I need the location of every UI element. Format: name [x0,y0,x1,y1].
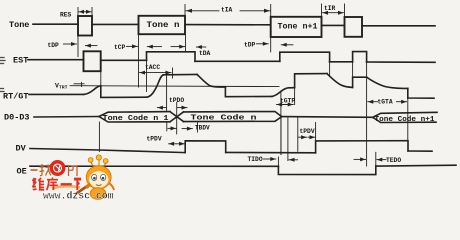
dimension tIA [185,5,271,17]
dimension tIR [322,4,345,17]
wire EST low mid [195,60,280,62]
watermark outline glyph zhao (找) [31,164,78,176]
RT/GT drop 2 [225,87,272,97]
svg-text:tPDO: tPDO [169,97,184,104]
node D0-D3 label [4,113,30,123]
RT/GT step up 2 [353,77,367,87]
node EST label [13,56,28,66]
reference line EST pulse2 right edge down to RT/GT decay [329,62,331,77]
reference line EST pulse3 left edge down to RT/GT step [352,62,354,77]
wire RT/GT baseline [29,93,84,95]
dimension tDA [196,46,205,48]
EST pulse 3 [353,52,367,62]
svg-text:Tone Code n+1: Tone Code n+1 [375,116,435,124]
wire Tone baseline left [33,23,78,25]
VTRT threshold label [55,83,68,91]
tone burst box Tone n+1 [271,17,322,37]
EST strobe box [84,51,101,71]
dimension tDP second [257,37,294,52]
EST pulse 2 [280,52,330,62]
svg-text:EST: EST [13,56,28,66]
svg-text:tDP: tDP [244,41,256,48]
wire OE high left [30,165,278,167]
dimension tPDV left [169,143,185,145]
bus crossover X [170,112,184,122]
svg-text:Tone Code n 1: Tone Code n 1 [103,115,169,123]
dimension TIDO [264,118,298,167]
reference line from bus opening down to DV [98,122,100,152]
wire Tone between Tone n and Tone n+1 [185,24,271,26]
EST pulse 1 [147,52,196,62]
node RT/GT label [3,91,29,101]
dimension tPDV right [298,117,316,151]
svg-text:tPDV: tPDV [147,135,162,142]
VTRT threshold line [70,82,279,86]
RT/GT step up 1 [295,74,327,88]
svg-text:tGTA: tGTA [378,99,393,106]
svg-text:tDP: tDP [48,42,60,49]
dimension TEDO [354,152,386,166]
dimension RES [78,8,92,17]
wire Tone right end [362,25,435,27]
DV pulse 1 [185,141,226,153]
wire EST right end [367,61,435,63]
svg-text:Tone n: Tone n [147,21,180,30]
wire Tone between B1 and Tone n [92,23,139,25]
svg-text:RT/GT: RT/GT [3,91,29,101]
wire DV low mid [226,151,316,153]
tone burst box B1 (RES pulse) [78,16,92,36]
RT/GT decay 1 [197,74,225,87]
dimension tGTA [367,62,408,166]
wire EST mid [101,59,147,61]
watermark red circle logo [50,160,66,176]
RT/GT decay 2 [327,74,353,88]
RT/GT charge curve 3 [272,88,295,97]
wire DV low left [30,149,185,153]
dimension tDP first [64,36,98,57]
svg-text:D0-D3: D0-D3 [4,113,30,123]
RT/GT final drop [408,88,434,98]
bus hexagon Tone Code n-1 [99,112,170,117]
svg-text:Tone Code n: Tone Code n [191,115,258,123]
OE low pulse [278,166,375,175]
svg-text:TBDV: TBDV [195,125,210,132]
tone burst box Tone n [139,16,186,34]
wire EST baseline left [28,59,84,61]
dimension TBDV [167,117,198,134]
RT/GT plateau 1 [164,73,198,75]
dimension arrows on EST pulse1 [147,34,185,52]
RT/GT charge curve 2 [147,75,164,97]
dimension tCP [127,34,139,87]
node Tone label [9,20,29,30]
scan artifact left edge [0,58,5,92]
svg-text:www.dzsc.com: www.dzsc.com [43,191,114,201]
svg-text:tGTP: tGTP [280,98,295,105]
tone burst box B4 [345,17,363,37]
wire D0-D3 mid [282,116,373,119]
node OE label [17,167,27,177]
wire DV right end [408,150,432,152]
watermark mascot [75,155,114,199]
svg-text:Tone: Tone [9,20,29,30]
svg-text:TEDO: TEDO [386,157,401,164]
svg-text:TIDO: TIDO [248,156,263,163]
svg-text:tIA: tIA [221,6,233,13]
RT/GT discharge drop 1 [101,86,147,98]
DV pulse 2 [316,141,408,153]
svg-text:RES: RES [60,11,72,18]
wire OE right end [376,164,456,167]
dimension tGTP [277,74,295,155]
svg-text:tACC: tACC [145,64,160,71]
wire Tone between Tone n+1 and B4 [322,24,345,26]
watermark red glyphs wei ku yi xia (维库一下) [33,178,82,191]
dimension tACC [140,62,173,92]
svg-text:tDA: tDA [199,50,211,57]
svg-text:DV: DV [16,144,27,154]
bus hexagon Tone Code n [184,112,282,117]
reference line from EST strobe down to RT/GT [100,71,102,86]
wire EST low [330,61,353,63]
watermark outline glyph pian (片) [69,165,78,176]
dimension tPDO [157,76,187,117]
svg-text:tPDV: tPDV [300,128,315,135]
RT/GT decay 3 [367,77,408,88]
node DV label [16,144,27,154]
RT/GT charge curve 1 [84,86,101,95]
svg-text:tCP: tCP [114,44,126,51]
svg-text:OE: OE [17,167,27,177]
svg-text:tIR: tIR [324,5,336,12]
bus hexagon Tone Code n+1 [373,112,437,117]
svg-text:Tone n+1: Tone n+1 [278,22,318,31]
wire D0-D3 left [34,116,99,119]
watermark brush swoosh [52,186,80,188]
